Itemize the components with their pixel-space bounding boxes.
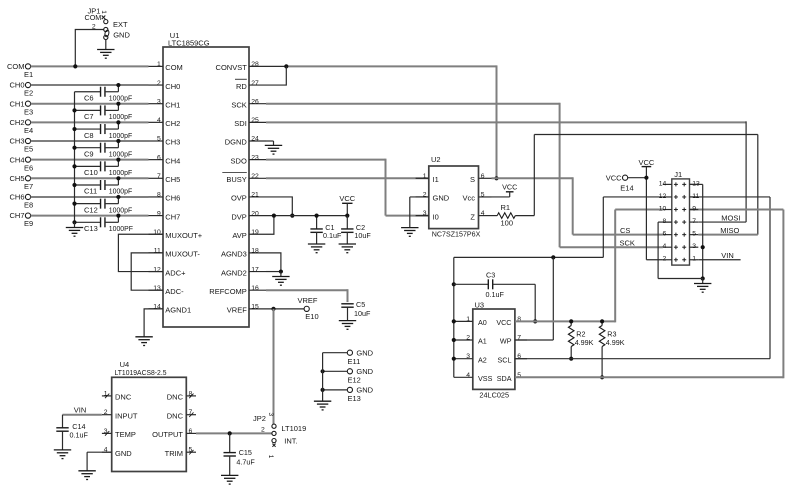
capacitor C8 1000pF [75, 124, 133, 140]
wire BUSY to U2 I1 [266, 177, 429, 179]
wire CH6 to U1 pin 8 [31, 196, 149, 198]
wire U4 OUTPUT to JP2 pin2 [196, 431, 272, 435]
svg-text:E1: E1 [24, 70, 33, 79]
wire E11 to ground rail [323, 352, 348, 354]
svg-text:AVP: AVP [232, 231, 246, 240]
svg-text:MUXOUT-: MUXOUT- [165, 250, 200, 259]
svg-text:6: 6 [157, 154, 161, 161]
capacitor C10 1000pF [75, 161, 133, 177]
wire MUXOUT+ to ADC+ [118, 234, 163, 271]
svg-text:OVP: OVP [231, 194, 247, 203]
svg-text:23: 23 [251, 154, 259, 161]
capacitor C12 1000pF [75, 199, 133, 215]
power VCC at J1 pin2 [638, 158, 662, 260]
svg-text:28: 28 [251, 61, 259, 68]
label MISO [720, 226, 739, 235]
svg-text:19: 19 [251, 229, 259, 236]
svg-text:MOSI: MOSI [721, 214, 740, 223]
svg-text:100: 100 [501, 218, 514, 227]
wire SCK net to J1 pin4 [266, 103, 663, 248]
svg-text:VREF: VREF [227, 306, 247, 315]
svg-text:U3: U3 [475, 300, 485, 309]
svg-text:2: 2 [663, 256, 667, 263]
test point E9 (CH7) [9, 211, 33, 228]
svg-text:LT1019ACS8-2.5: LT1019ACS8-2.5 [115, 368, 167, 377]
svg-text:10uF: 10uF [354, 231, 371, 240]
wire SDA to J1 pin9 [515, 210, 784, 379]
wire CH3 to U1 pin 5 [31, 140, 149, 142]
svg-text:EXT: EXT [113, 20, 128, 29]
svg-text:E12: E12 [348, 376, 361, 385]
svg-text:E5: E5 [24, 145, 33, 154]
svg-text:GND: GND [113, 30, 130, 39]
svg-text:INT.: INT. [284, 436, 297, 445]
IC U3 24LC025 [454, 300, 527, 399]
ground C2 [339, 244, 356, 253]
svg-text:NC7SZ157P6X: NC7SZ157P6X [432, 230, 481, 239]
wire DGND to ground [266, 141, 274, 145]
svg-text:DNC: DNC [167, 393, 184, 402]
svg-text:COM: COM [165, 63, 183, 72]
ground C15 [221, 475, 238, 484]
svg-text:10uF: 10uF [354, 309, 371, 318]
svg-text:CH4: CH4 [9, 155, 24, 164]
svg-text:16: 16 [251, 285, 259, 292]
svg-text:CH0: CH0 [9, 81, 24, 90]
svg-text:C6: C6 [84, 93, 94, 102]
svg-text:LT1019: LT1019 [281, 424, 306, 433]
svg-text:CH7: CH7 [165, 212, 180, 221]
svg-text:1000pF: 1000pF [109, 114, 132, 121]
svg-text:C7: C7 [84, 112, 94, 121]
svg-text:0.1uF: 0.1uF [70, 430, 89, 439]
wire S line to CS vertical [492, 177, 663, 234]
svg-text:INPUT: INPUT [115, 411, 138, 420]
svg-text:E3: E3 [24, 107, 33, 116]
capacitor C1 0.1uF [310, 214, 342, 245]
svg-text:1000pF: 1000pF [109, 170, 132, 177]
svg-text:SCK: SCK [620, 238, 635, 247]
capacitor C3 0.1uF [454, 271, 535, 299]
svg-text:BUSY: BUSY [226, 175, 246, 184]
svg-text:CH2: CH2 [165, 119, 180, 128]
svg-text:E14: E14 [620, 184, 633, 193]
svg-text:7: 7 [692, 218, 696, 225]
wire SDO to U2 I0 [266, 159, 429, 216]
wire JP1 pin3 to ground [105, 40, 107, 50]
wire CH5 to U1 pin 7 [31, 177, 149, 179]
jumper JP2 [253, 413, 306, 459]
IC U4 LT1019ACS8-2.5 [102, 360, 196, 471]
svg-text:1000pF: 1000pF [109, 189, 132, 196]
svg-text:RD: RD [236, 82, 247, 91]
svg-text:AGND1: AGND1 [165, 306, 191, 315]
svg-text:E6: E6 [24, 163, 33, 172]
wire VIN at J1 pin1 [698, 259, 740, 261]
resistor R1 100 [492, 203, 535, 227]
svg-text:3: 3 [157, 98, 161, 105]
wire C8 to CH2 line [116, 120, 120, 129]
svg-text:CS: CS [620, 226, 630, 235]
svg-text:SDA: SDA [497, 374, 512, 383]
svg-text:1000pF: 1000pF [109, 151, 132, 158]
ground AGND1 [135, 337, 152, 346]
wire C9 to CH3 line [116, 139, 120, 148]
svg-text:5: 5 [157, 136, 161, 143]
svg-text:1000pF: 1000pF [109, 133, 132, 140]
svg-text:CH2: CH2 [9, 118, 24, 127]
wire CH0 to U1 pin 2 [31, 84, 149, 86]
svg-text:2: 2 [466, 335, 470, 342]
wire ground rail E11-E13 [322, 353, 324, 402]
svg-text:3: 3 [267, 413, 274, 417]
svg-text:J1: J1 [674, 170, 682, 179]
svg-text:COM: COM [7, 62, 25, 71]
svg-text:CH6: CH6 [165, 194, 180, 203]
svg-text:C13: C13 [84, 224, 98, 233]
capacitor C13 1000PF [75, 217, 133, 233]
wire VIN to U4 INPUT [63, 414, 102, 416]
svg-text:1000pF: 1000pF [109, 207, 132, 214]
svg-text:0.1uF: 0.1uF [486, 290, 505, 299]
svg-text:18: 18 [251, 248, 259, 255]
svg-text:9: 9 [692, 205, 696, 212]
svg-text:E10: E10 [305, 312, 318, 321]
capacitor C11 1000pF [75, 180, 133, 196]
svg-text:Z: Z [470, 212, 475, 221]
svg-text:C15: C15 [239, 448, 252, 457]
label VIN U4 [74, 406, 87, 415]
wire C3 to VCC line [533, 284, 537, 323]
svg-text:SCL: SCL [498, 355, 512, 364]
test point E7 (CH5) [9, 174, 33, 191]
test point E3 (CH1) [9, 99, 33, 116]
wire CH4 to U1 pin 6 [31, 159, 149, 161]
svg-text:VCC: VCC [638, 158, 654, 167]
svg-text:E4: E4 [24, 126, 33, 135]
test point E12 (GND) [347, 367, 373, 385]
svg-text:5: 5 [481, 191, 485, 198]
svg-text:VREF: VREF [298, 296, 318, 305]
svg-text:E2: E2 [24, 89, 33, 98]
svg-text:15: 15 [251, 304, 259, 311]
svg-text:GND: GND [433, 194, 450, 203]
ground J1 [694, 284, 711, 293]
svg-text:TEMP: TEMP [115, 430, 136, 439]
svg-text:C3: C3 [486, 271, 495, 280]
capacitor C14 0.1uF [56, 415, 88, 450]
svg-text:CH4: CH4 [165, 156, 180, 165]
svg-text:SDO: SDO [231, 156, 247, 165]
wire MUXOUT- to ADC- [131, 253, 163, 290]
svg-text:SDI: SDI [234, 119, 247, 128]
test point E11 (GND) [347, 348, 373, 366]
power VCC at DVP [339, 194, 355, 218]
svg-text:CH3: CH3 [165, 138, 180, 147]
svg-text:AGND3: AGND3 [221, 250, 247, 259]
svg-text:Vcc: Vcc [462, 194, 475, 203]
svg-text:12: 12 [659, 193, 667, 200]
svg-text:R1: R1 [501, 203, 511, 212]
svg-text:14: 14 [659, 180, 667, 187]
svg-text:26: 26 [251, 98, 259, 105]
svg-text:E7: E7 [24, 182, 33, 191]
svg-text:1: 1 [267, 455, 274, 459]
capacitor C15 4.7uF [224, 433, 256, 475]
svg-text:20: 20 [251, 210, 259, 217]
svg-text:CONVST: CONVST [216, 63, 248, 72]
x mark JP1 [102, 16, 106, 20]
svg-text:TRIM: TRIM [165, 449, 183, 458]
svg-text:E13: E13 [348, 394, 361, 403]
svg-text:27: 27 [251, 80, 259, 87]
svg-text:5: 5 [692, 231, 696, 238]
wire U3 VCC line to J1 pin10 [515, 210, 663, 323]
capacitor C5 10uF [341, 300, 371, 321]
capacitor C7 1000pF [75, 105, 133, 121]
svg-text:14: 14 [153, 304, 161, 311]
svg-text:1: 1 [423, 173, 427, 180]
label CS [620, 226, 630, 235]
test point E2 (CH0) [9, 81, 33, 98]
test point E8 (CH6) [9, 193, 33, 210]
svg-text:24LC025: 24LC025 [479, 391, 509, 400]
resistor R2 4.99K [568, 319, 593, 361]
svg-text:1000PF: 1000PF [109, 226, 133, 233]
wire U4 GND to ground [87, 452, 112, 471]
svg-text:2: 2 [261, 426, 265, 433]
label SCK [620, 238, 635, 247]
ground C14 [54, 450, 71, 459]
svg-text:3: 3 [466, 353, 470, 360]
wire JP1 pin2 to COM net [73, 30, 103, 69]
capacitor C9 1000pF [75, 143, 133, 159]
wire CH7 to U1 pin 9 [31, 215, 149, 217]
ground capacitor rail [66, 228, 83, 237]
svg-text:22: 22 [251, 173, 259, 180]
wire AGND1 to ground [144, 309, 163, 337]
svg-text:VCC: VCC [496, 318, 511, 327]
wire CH1 to U1 pin 3 [31, 103, 149, 105]
svg-text:E11: E11 [348, 357, 361, 366]
svg-text:VIN: VIN [721, 251, 734, 260]
svg-text:CH5: CH5 [165, 175, 180, 184]
svg-text:VSS: VSS [478, 374, 493, 383]
svg-text:REFCOMP: REFCOMP [209, 287, 247, 296]
svg-text:1: 1 [157, 61, 161, 68]
test point E1 (COM) [7, 62, 33, 79]
svg-text:DNC: DNC [115, 393, 132, 402]
svg-text:4.99K: 4.99K [606, 338, 625, 347]
svg-text:I0: I0 [433, 212, 439, 221]
test point E4 (CH2) [9, 118, 33, 135]
svg-text:DGND: DGND [225, 138, 248, 147]
svg-text:2: 2 [157, 80, 161, 87]
svg-text:1000pF: 1000pF [109, 95, 132, 102]
svg-text:6: 6 [663, 231, 667, 238]
svg-text:24: 24 [251, 136, 259, 143]
wire C10 to CH4 line [116, 158, 120, 167]
svg-text:11: 11 [692, 193, 699, 200]
svg-text:1: 1 [100, 10, 107, 14]
svg-text:4: 4 [481, 210, 485, 217]
svg-text:6: 6 [481, 173, 485, 180]
svg-text:U2: U2 [431, 155, 441, 164]
svg-text:CH1: CH1 [165, 100, 180, 109]
svg-text:ADC+: ADC+ [165, 268, 186, 277]
power VCC at U2 pin5 [502, 183, 517, 197]
svg-text:OUTPUT: OUTPUT [152, 430, 183, 439]
wire R1 to J1 pin5 MISO [534, 135, 758, 235]
wire capacitor ground rail [72, 92, 76, 228]
wire C7 to CH1 line [116, 102, 120, 111]
wire AGND3 AGND2 to ground [266, 253, 283, 277]
svg-text:6: 6 [189, 428, 193, 435]
wire VREF to JP2 pin3 [273, 309, 275, 424]
wire E12 to ground rail [321, 369, 348, 373]
svg-text:9: 9 [157, 210, 161, 217]
svg-text:LTC1859CG: LTC1859CG [168, 38, 210, 47]
connector J1 [659, 170, 700, 265]
svg-text:25: 25 [251, 117, 259, 124]
ground C5 [339, 321, 356, 330]
svg-text:4: 4 [663, 243, 667, 250]
ground U2 [401, 228, 418, 237]
wire COM to U1 pin 1 [31, 65, 149, 67]
svg-text:4: 4 [466, 372, 470, 379]
svg-text:VCC: VCC [339, 194, 355, 203]
svg-text:COM: COM [85, 13, 102, 22]
svg-text:GND: GND [115, 449, 132, 458]
ground C1 [308, 244, 325, 253]
wire C6 to CH0 line [116, 83, 120, 92]
label MOSI [721, 214, 740, 223]
svg-text:VCC: VCC [502, 183, 517, 192]
wire U3 address rail [452, 257, 456, 377]
wire CH2 to U1 pin 4 [31, 121, 149, 123]
svg-text:3: 3 [692, 243, 696, 250]
svg-text:C5: C5 [356, 300, 365, 309]
ground AGND2 [272, 277, 289, 286]
svg-text:C10: C10 [84, 168, 98, 177]
IC U2 NC7SZ157P6X [416, 155, 492, 239]
svg-text:12: 12 [153, 266, 161, 273]
x mark JP2 [272, 444, 275, 447]
svg-text:2: 2 [104, 409, 108, 416]
svg-text:1: 1 [466, 316, 470, 323]
ground U4 [78, 471, 95, 480]
svg-text:E8: E8 [24, 201, 33, 210]
svg-text:I1: I1 [433, 175, 439, 184]
wire U2 Vcc pin5 to VCC [492, 196, 510, 198]
test point E5 (CH3) [9, 137, 33, 154]
wire J1 pin13 pin3 to ground [658, 184, 705, 283]
capacitor C2 10uF [341, 216, 371, 244]
svg-text:CH6: CH6 [9, 193, 24, 202]
svg-text:MUXOUT+: MUXOUT+ [165, 231, 202, 240]
ground E11-E13 rail [314, 401, 331, 410]
test point E13 (GND) [347, 386, 373, 404]
svg-text:C8: C8 [84, 131, 94, 140]
svg-text:CH3: CH3 [9, 137, 24, 146]
svg-text:4: 4 [157, 117, 161, 124]
svg-text:JP2: JP2 [253, 414, 266, 423]
svg-text:VCC: VCC [606, 173, 622, 182]
ground JP1 [97, 50, 114, 59]
svg-text:3: 3 [423, 210, 427, 217]
svg-text:WP: WP [500, 337, 512, 346]
svg-text:4.99K: 4.99K [575, 338, 594, 347]
ground DGND [265, 145, 282, 154]
svg-text:MISO: MISO [720, 226, 739, 235]
svg-text:A0: A0 [478, 318, 487, 327]
wire ground net to J1 pin12 [454, 197, 663, 260]
wire SDI net to J1 pin7 MOSI [266, 121, 746, 222]
svg-text:8: 8 [157, 192, 161, 199]
wire SCL to J1 pin11 [515, 197, 770, 359]
svg-text:CH5: CH5 [9, 174, 24, 183]
svg-text:E9: E9 [24, 219, 33, 228]
svg-text:SCK: SCK [231, 100, 246, 109]
wire C13 to CH7 line [116, 214, 120, 223]
test point E6 (CH4) [9, 155, 33, 172]
svg-text:21: 21 [251, 192, 259, 199]
wire U3 WP to ground net [515, 257, 553, 340]
svg-text:CH7: CH7 [9, 211, 24, 220]
jumper JP1 [85, 6, 131, 39]
wire U2 GND to ground [410, 197, 429, 228]
wire REFCOMP to C5 [266, 289, 348, 302]
test point E14 (VCC) [606, 173, 634, 192]
svg-text:AGND2: AGND2 [221, 268, 247, 277]
node CONVST-S junction [494, 176, 498, 180]
svg-text:13: 13 [153, 285, 161, 292]
svg-text:0.1uF: 0.1uF [323, 231, 342, 240]
svg-text:C12: C12 [84, 205, 98, 214]
svg-text:A2: A2 [478, 355, 487, 364]
svg-text:CH1: CH1 [9, 99, 24, 108]
svg-text:11: 11 [154, 248, 161, 255]
svg-text:7: 7 [157, 173, 161, 180]
svg-text:17: 17 [251, 266, 259, 273]
label VIN J1 [721, 251, 734, 260]
resistor R3 4.99K [599, 319, 624, 379]
svg-text:C9: C9 [84, 149, 94, 158]
wire E13 to ground rail [321, 388, 348, 392]
svg-text:ADC-: ADC- [165, 287, 184, 296]
svg-text:4.7uF: 4.7uF [236, 458, 255, 467]
wire C11 to CH5 line [116, 176, 120, 185]
svg-text:1: 1 [692, 256, 696, 263]
svg-text:S: S [470, 175, 475, 184]
svg-text:10: 10 [659, 205, 667, 212]
wire OVP to DVP [266, 197, 294, 218]
wire DVP rail [266, 215, 347, 217]
svg-text:CH0: CH0 [165, 82, 180, 91]
svg-text:C11: C11 [84, 187, 97, 196]
svg-text:DNC: DNC [167, 411, 184, 420]
svg-text:DVP: DVP [231, 212, 246, 221]
wire C12 to CH6 line [116, 195, 120, 204]
wire VREF to E10 [266, 307, 304, 311]
svg-text:10: 10 [153, 229, 161, 236]
svg-text:VIN: VIN [74, 406, 87, 415]
IC U1 LTC1859CG [149, 31, 267, 327]
wire E14 to VCC rail [628, 176, 649, 180]
svg-text:A1: A1 [478, 337, 487, 346]
wire CONVST net to U2 S and J1 CS [266, 64, 497, 178]
test point E10 (VREF) [298, 296, 319, 321]
